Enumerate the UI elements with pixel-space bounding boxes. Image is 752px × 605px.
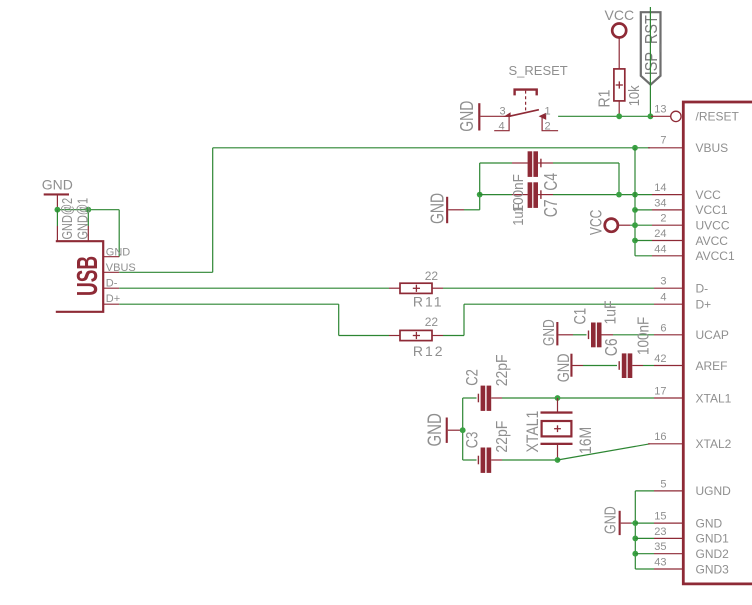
- svg-text:17: 17: [654, 386, 666, 398]
- svg-text:14: 14: [654, 182, 666, 194]
- node junction GND at C2 C3: [460, 427, 466, 433]
- wire VBUS top rail: [213, 147, 650, 149]
- svg-text:44: 44: [654, 243, 666, 255]
- svg-text:GND: GND: [457, 101, 477, 132]
- svg-text:GND: GND: [42, 177, 73, 193]
- pin 6 UCAP: [654, 322, 683, 335]
- node junction ISP_RST: [648, 113, 654, 119]
- svg-text:GND: GND: [601, 506, 619, 534]
- switch S_RESET: [499, 63, 568, 132]
- svg-text:AVCC: AVCC: [696, 234, 729, 248]
- pin 42 AREF: [654, 353, 683, 366]
- capacitor C1 on UCAP: [571, 300, 620, 347]
- wire VCC circle to UVCC: [618, 224, 652, 226]
- ground symbol (AREF): [556, 353, 583, 382]
- wire D+ from R12 to IC: [443, 304, 654, 335]
- node junction GND@2: [55, 207, 61, 213]
- pin 35 GND2: [632, 541, 682, 556]
- svg-text:C2: C2: [463, 369, 482, 386]
- svg-text:C1: C1: [571, 308, 590, 325]
- svg-text:13: 13: [654, 104, 666, 116]
- node junction GND@1: [85, 207, 91, 213]
- ground symbol (C2 C3): [423, 413, 463, 446]
- pin 2 UVCC: [632, 213, 683, 228]
- capacitor C3: [463, 421, 511, 473]
- svg-text:R12: R12: [413, 343, 445, 359]
- pin 13 /RESET with bubble: [651, 104, 681, 122]
- wire VBUS from USB to riser: [119, 271, 213, 273]
- svg-text:R11: R11: [413, 294, 444, 310]
- pin 24 AVCC: [632, 228, 683, 243]
- wire GND stem: [631, 522, 635, 524]
- supply symbol VCC (R1): [605, 7, 635, 38]
- pin GND@2 of USB: [57, 198, 75, 241]
- capacitor C2: [463, 354, 511, 410]
- svg-text:C3: C3: [463, 432, 482, 449]
- wire GND stem to junction: [464, 195, 480, 210]
- svg-text:GND@1: GND@1: [74, 198, 91, 240]
- svg-text:ISP_RST: ISP_RST: [642, 15, 662, 75]
- svg-text:GND: GND: [556, 353, 574, 382]
- svg-text:23: 23: [654, 526, 666, 538]
- wire D+ from USB: [119, 304, 389, 335]
- svg-text:VCC1: VCC1: [696, 203, 728, 217]
- svg-text:GND3: GND3: [696, 562, 730, 576]
- wire UGND bus: [635, 491, 654, 569]
- wire to C4: [480, 163, 512, 195]
- resistor R1: [596, 69, 643, 116]
- pin 16 XTAL2: [648, 431, 683, 444]
- pin 34 VCC1: [632, 197, 683, 212]
- node junction VCC bus: [632, 192, 638, 198]
- pin 14 VCC: [652, 182, 683, 195]
- svg-text:15: 15: [654, 511, 666, 523]
- svg-text:GND@2: GND@2: [58, 198, 75, 240]
- wire D- from R11 to IC: [443, 287, 654, 289]
- svg-text:/RESET: /RESET: [696, 110, 740, 124]
- pin 23 GND1: [632, 526, 682, 541]
- pin 5 UGND: [654, 478, 683, 491]
- svg-text:22: 22: [425, 315, 439, 329]
- svg-text:GND: GND: [423, 413, 445, 446]
- wire GND net above USB: [57, 210, 119, 257]
- svg-text:5: 5: [660, 478, 666, 490]
- svg-text:3: 3: [660, 276, 666, 288]
- resistor R11: [389, 269, 444, 309]
- svg-text:16: 16: [654, 431, 666, 443]
- wire VCC vertical bus: [634, 148, 636, 256]
- wire D- from USB to R11: [119, 287, 389, 289]
- crystal Q1 XTAL1 16M: [524, 398, 596, 459]
- svg-text:USB: USB: [72, 256, 104, 296]
- svg-text:AVCC1: AVCC1: [696, 249, 735, 263]
- svg-text:2: 2: [660, 213, 666, 225]
- wire AREF to IC: [643, 365, 654, 367]
- ground symbol (UCAP): [539, 319, 573, 346]
- pin GND of USB: [103, 246, 130, 258]
- pin 4 D+: [654, 292, 683, 305]
- node junction at C7 left: [477, 192, 483, 198]
- svg-text:D-: D-: [696, 282, 709, 296]
- svg-text:24: 24: [654, 228, 666, 240]
- wire C3 to crystal bottom: [502, 459, 558, 461]
- svg-text:10k: 10k: [625, 84, 642, 106]
- pin 15 GND: [632, 511, 682, 526]
- pin VBUS of USB: [103, 262, 136, 274]
- pin 44 AVCC1: [635, 243, 683, 256]
- svg-text:22pF: 22pF: [493, 421, 511, 453]
- svg-text:GND2: GND2: [696, 547, 730, 561]
- svg-text:22pF: 22pF: [493, 354, 511, 386]
- svg-text:D-: D-: [106, 278, 118, 290]
- svg-text:S_RESET: S_RESET: [509, 63, 568, 78]
- svg-text:7: 7: [660, 135, 666, 147]
- svg-text:6: 6: [660, 322, 666, 334]
- IC pin names: [696, 110, 740, 577]
- pin 7 VBUS: [648, 135, 683, 148]
- svg-text:GND1: GND1: [696, 532, 730, 546]
- svg-text:100nF: 100nF: [636, 317, 653, 355]
- wire VBUS riser: [212, 148, 214, 272]
- svg-text:C4: C4: [542, 173, 562, 191]
- svg-text:XTAL1: XTAL1: [696, 391, 732, 405]
- pin 43 GND3: [635, 557, 683, 570]
- wire C2 C3 vertical: [462, 398, 464, 460]
- svg-text:16M: 16M: [577, 427, 595, 454]
- svg-text:C7: C7: [542, 199, 562, 217]
- svg-text:GND: GND: [539, 319, 557, 346]
- pin D+ of USB: [103, 293, 120, 305]
- IC U1 body (AVR): [683, 102, 752, 584]
- wire /RESET net: [558, 115, 651, 117]
- ground symbol (IC GND): [601, 506, 631, 535]
- node junction crystal bottom: [555, 457, 561, 463]
- capacitor C4: [510, 151, 561, 226]
- svg-text:1: 1: [545, 106, 551, 118]
- svg-text:100nF: 100nF: [510, 174, 527, 213]
- svg-text:UVCC: UVCC: [696, 219, 730, 233]
- wire C4 to VCC row: [553, 163, 619, 195]
- svg-text:42: 42: [654, 353, 666, 365]
- supply symbol VCC (UVCC): [588, 210, 618, 235]
- ground symbol (USB shield GND): [42, 177, 73, 210]
- svg-text:35: 35: [654, 541, 666, 553]
- svg-text:XTAL1: XTAL1: [524, 411, 542, 453]
- USB connector X1 body: [56, 241, 104, 312]
- svg-text:D+: D+: [696, 298, 712, 312]
- svg-text:VCC: VCC: [588, 210, 606, 235]
- ground symbol (C4 C7): [428, 193, 464, 224]
- wire XTAL2 slanted: [558, 444, 651, 460]
- svg-text:3: 3: [500, 106, 506, 118]
- svg-text:4: 4: [660, 292, 666, 304]
- pin 3 D-: [654, 276, 683, 289]
- svg-text:C6: C6: [602, 338, 621, 356]
- pin GND@1 of USB: [74, 198, 91, 241]
- svg-text:XTAL2: XTAL2: [696, 437, 732, 451]
- svg-text:AREF: AREF: [696, 359, 728, 373]
- wire UCAP to IC: [613, 334, 654, 336]
- wire VCC row to bus: [553, 194, 652, 196]
- wire XTAL1 row: [502, 397, 654, 399]
- svg-text:GND: GND: [696, 516, 723, 530]
- ground symbol (S_RESET): [457, 101, 509, 132]
- node junction C4 drop: [616, 192, 622, 198]
- svg-text:GND: GND: [428, 193, 448, 224]
- pin 4 lead of S_RESET: [494, 116, 509, 130]
- svg-text:43: 43: [654, 557, 666, 569]
- svg-text:VBUS: VBUS: [696, 141, 729, 155]
- pin 17 XTAL1: [654, 386, 683, 399]
- svg-text:VCC: VCC: [696, 188, 722, 202]
- svg-text:UGND: UGND: [696, 484, 732, 498]
- svg-text:D+: D+: [106, 293, 120, 305]
- capacitor C6 on AREF: [583, 317, 653, 378]
- net label ISP_RST flag: [641, 12, 662, 84]
- svg-text:22: 22: [425, 269, 439, 283]
- node junction R1 bottom: [616, 113, 622, 119]
- svg-text:34: 34: [654, 197, 666, 209]
- node junction crystal top: [555, 395, 561, 401]
- svg-text:1uF: 1uF: [603, 300, 620, 324]
- wire C7 row: [480, 194, 512, 196]
- svg-text:UCAP: UCAP: [696, 328, 729, 342]
- svg-text:R1: R1: [596, 90, 614, 108]
- svg-text:GND: GND: [106, 246, 131, 258]
- wire VCC to R1: [618, 38, 620, 69]
- pin 2 lead of S_RESET: [542, 116, 558, 130]
- capacitor C7: [510, 174, 561, 217]
- svg-text:VCC: VCC: [605, 7, 635, 23]
- node junction VBUS at VCC bus: [632, 145, 638, 151]
- wire ISP_RST: [649, 7, 651, 116]
- resistor R12: [389, 315, 445, 359]
- pin D- of USB: [103, 278, 119, 290]
